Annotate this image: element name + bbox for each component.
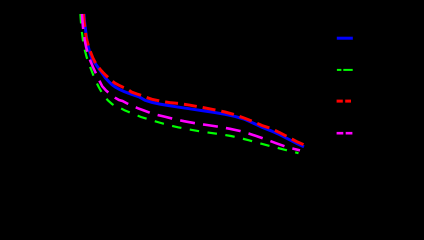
legend: blue solid sample [337, 37, 353, 40]
green dashed curve [80, 14, 298, 153]
blue solid curve [84, 14, 304, 147]
legend: magenta dashed sample [337, 132, 344, 135]
magenta dashed curve [82, 14, 300, 150]
legend: green dashed sample [337, 69, 342, 71]
red dashed curve [83, 14, 305, 146]
legend: red dashed sample [337, 100, 343, 103]
